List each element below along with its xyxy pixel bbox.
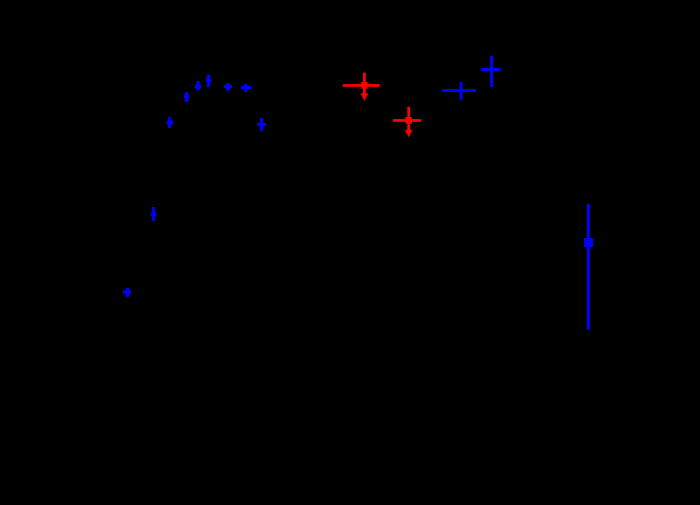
- blue data point P9 with error bars: [123, 288, 131, 297]
- red upper-limit point R1: marker, x error bar, y bar with down arrow: [343, 73, 380, 101]
- blue data point P2 with error bars: [184, 92, 189, 102]
- blue data point P5 with error bars: [224, 83, 232, 91]
- red upper-limit point R2: marker, x error bar, y bar with down arrow: [393, 107, 421, 137]
- blue cross B1: x and y error bars: [442, 82, 476, 100]
- blue data point P7 with error bars: [257, 118, 266, 131]
- blue data point P4 with error bars: [206, 75, 211, 88]
- blue vertical error bar L with square marker: [584, 204, 593, 330]
- blue data point P6 with error bars: [241, 84, 251, 92]
- blue cross B2: x and y error bars: [481, 56, 501, 87]
- blue data point P1 with error bars: [167, 117, 173, 128]
- blue data point P8 with error bars: [151, 207, 156, 221]
- blue data point P3 with error bars: [195, 81, 201, 91]
